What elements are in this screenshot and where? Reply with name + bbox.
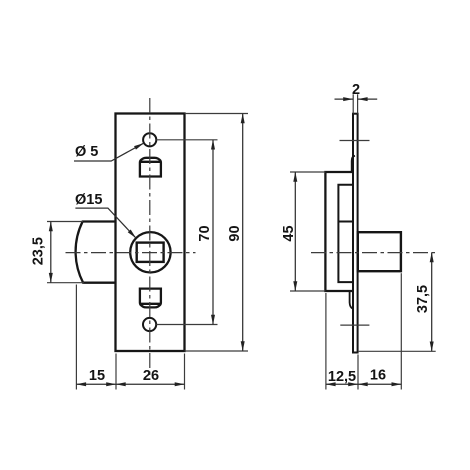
dimension text 45 bbox=[281, 225, 297, 241]
label Ø 5 leader line bbox=[74, 143, 144, 161]
screw axis tick top bbox=[340, 140, 370, 142]
dimension text 23,5 bbox=[31, 237, 47, 265]
side faceplate bbox=[353, 114, 358, 353]
svg-text:45: 45 bbox=[281, 225, 297, 241]
dimension 37,5 extension line bbox=[358, 350, 436, 352]
svg-text:37,5: 37,5 bbox=[415, 285, 431, 313]
svg-text:16: 16 bbox=[370, 368, 386, 384]
lower follower cup bbox=[140, 289, 161, 308]
svg-text:90: 90 bbox=[227, 225, 243, 241]
dimension text 90 bbox=[227, 225, 243, 241]
dimension 16 line with arrows bbox=[358, 383, 401, 385]
dimension 15 line with arrows bbox=[76, 383, 116, 385]
label Ø15 leader line bbox=[75, 208, 135, 238]
top screw hole circle Ø5 bbox=[143, 133, 156, 146]
dimension text 2 bbox=[352, 82, 360, 98]
label Ø 5 text bbox=[75, 144, 98, 160]
dimension 70 extension lines bbox=[156, 140, 217, 325]
svg-text:15: 15 bbox=[89, 368, 105, 384]
dimension 12,5 line with arrows bbox=[326, 383, 358, 385]
dimension 90 extension lines bbox=[185, 114, 249, 352]
dimension 26 line with arrows bbox=[116, 383, 185, 385]
svg-text:23,5: 23,5 bbox=[31, 237, 47, 265]
horizontal centerline side view bbox=[311, 252, 437, 254]
svg-text:Ø15: Ø15 bbox=[75, 192, 102, 208]
svg-text:70: 70 bbox=[197, 225, 213, 241]
dimension text 70 bbox=[197, 225, 213, 241]
dimension 37,5 line with arrows bbox=[431, 253, 433, 352]
dimension 70 line with arrows bbox=[212, 140, 214, 325]
horizontal centerline front view bbox=[66, 252, 196, 254]
svg-text:12,5: 12,5 bbox=[328, 369, 356, 385]
svg-text:Ø 5: Ø 5 bbox=[75, 144, 98, 160]
spring tail below case bbox=[350, 291, 353, 309]
dimension 12,5 and 16 extension lines bbox=[326, 273, 401, 389]
dimension text 15 bbox=[89, 368, 105, 384]
screw lug tab above case bbox=[352, 156, 355, 172]
inner mechanism box bbox=[338, 185, 352, 282]
vertical centerline front view bbox=[149, 98, 151, 375]
square spindle hole bbox=[137, 243, 164, 262]
dimension text 26 bbox=[143, 368, 159, 384]
front faceplate outline bbox=[116, 114, 185, 352]
label Ø15 text bbox=[75, 192, 102, 208]
dimension text 37,5 bbox=[415, 285, 431, 313]
dimension text 16 bbox=[370, 368, 386, 384]
latch bolt side view bbox=[358, 232, 401, 271]
dimension text 12,5 bbox=[328, 369, 356, 385]
dimension 90 line with arrows bbox=[242, 114, 244, 352]
spindle hole circle Ø15 bbox=[130, 232, 170, 272]
svg-text:2: 2 bbox=[352, 82, 360, 98]
dimension 2 extension lines bbox=[353, 94, 357, 113]
dimension 45 line with arrows bbox=[294, 172, 296, 291]
dimension 23,5 line with arrows bbox=[50, 222, 52, 283]
dimension 2 line with arrows bbox=[335, 98, 378, 100]
screw axis tick bottom bbox=[340, 324, 369, 326]
dimension 45 extension lines bbox=[290, 172, 325, 291]
svg-text:26: 26 bbox=[143, 368, 159, 384]
bottom screw hole circle bbox=[143, 318, 156, 331]
lock case side view bbox=[325, 172, 352, 291]
upper follower cup bbox=[140, 158, 161, 177]
dimension 15 and 26 extension lines bbox=[76, 285, 184, 390]
latch bolt front view bbox=[76, 222, 116, 283]
dimension 23,5 extension lines bbox=[47, 222, 84, 283]
